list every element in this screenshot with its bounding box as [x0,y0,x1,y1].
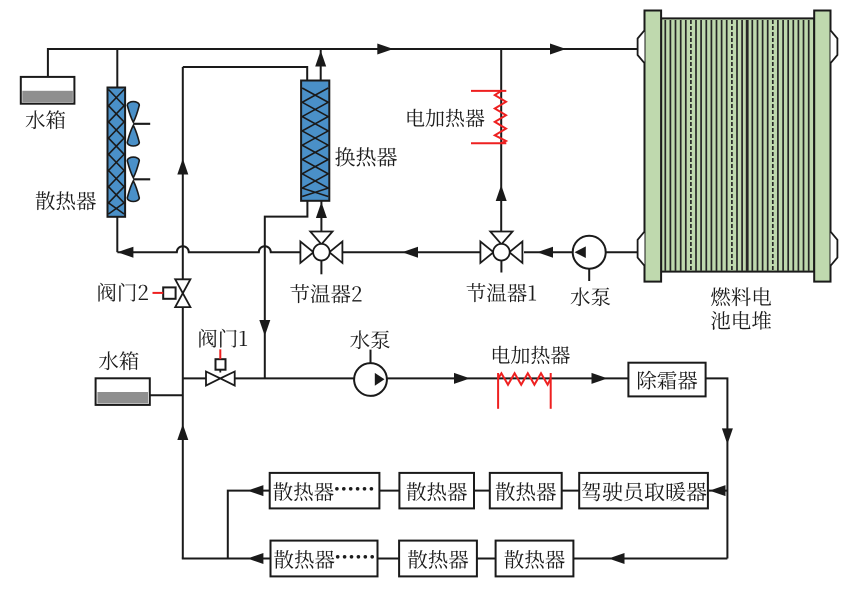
label water tank 1 [26,110,66,129]
arrow down on x=264.8 branch [259,320,270,336]
electric heater 2 (horizontal, red) [497,373,499,409]
arrow up exchanger outlet [315,51,326,67]
valve 2 (vertical bowtie) [175,279,190,293]
electric heater 1 (vertical, red) [471,90,506,92]
wire pump2 stem [370,350,372,364]
stack port tab bottom-left [638,232,645,266]
arrow left pump1 to thermostat1 [537,247,553,258]
wire vertical branch x=182.8 lower (valve2 to bottom row corner) [182,307,184,559]
valve 1 (horizontal bowtie) [206,372,220,386]
label box E text [274,550,334,569]
arrow left bottom-right row [609,553,625,564]
label box F text [408,550,468,569]
wire top-left horizontal into exchanger top [183,67,307,81]
arrow right bottom main line after pump2 [454,373,470,384]
wire pump1 to stack bottom tab [606,251,638,253]
label water pump 1 [571,287,611,306]
water tank 1 (top left) [21,77,75,104]
wire tank1 stub down [47,48,49,77]
label box G text [505,550,565,569]
arrow left into driver heater box [710,485,726,496]
label thermostat 2 [290,284,361,303]
box radiator A 散热器…… [270,473,380,509]
label fuel cell line 2 [711,311,771,330]
radiator zigzag coil [109,90,125,215]
arrow left mid line between thermostats [402,247,418,258]
wire branch right vertical to heater-box row (driver heater) [709,490,727,492]
heat exchanger zigzag coil [302,88,328,197]
label valve 2 [98,283,147,302]
wire mid line thermostat2 to thermostat1 [343,251,481,253]
stack port tab top-left [638,30,645,63]
wire mid line left segment with two hops [117,246,300,252]
wire radiator bottom stub to mid line corner [116,217,118,252]
ellipsis dots box E [336,555,340,559]
fuel cell stack right end plate [814,11,830,282]
wire bottom-right row line [573,558,727,560]
box radiator C 散热器 [490,473,562,509]
wire mid line thermostat1 to pump1 [524,251,573,253]
wire middle row links [379,490,399,492]
box radiator G 散热器 [496,541,574,577]
arrow left middle row exit [247,485,263,496]
wire radiator top stub [116,49,118,88]
label thermostat 1 [467,283,536,302]
arrow right bottom main line into defroster [592,373,608,384]
box defroster 除霜器 [628,363,705,397]
wire middle row left exit and corner down [228,491,270,559]
valve 1 actuator square and stem [219,370,221,373]
water tank 2 (lower left) [96,378,150,405]
wire exchanger bottom-left path down to bottom main line [265,200,308,378]
fuel cell stack cell stripes [664,20,666,271]
thermostat 2 three-way valve [300,242,313,263]
radiator fan2 shaft line [134,178,151,180]
water pump 2 (lower) [354,363,387,396]
radiator fan1 shaft line [134,123,151,125]
box radiator E 散热器…… [271,541,378,577]
arrow left bottom row exit [247,553,263,564]
label box A text [273,482,333,501]
wire exchanger outlet up to top line [320,50,322,81]
arrow up thermostat2 to exchanger [316,202,327,218]
wire defroster box to right corner and down [706,378,728,558]
arrow left at radiator return corner [117,247,133,258]
label fuel cell line 1 [711,287,771,306]
label water pump 2 [350,330,390,349]
label valve 1 [199,329,247,348]
label box D text [582,482,707,502]
stack port tab top-right [831,30,838,63]
radiator fan blade pair 1 [127,102,139,123]
arrow up on branch x=182.8 [177,159,188,175]
wire tank2 stub [150,394,183,396]
ellipsis dots box A [335,487,339,491]
label electric heater 1 [408,109,485,128]
stack port tab bottom-right [831,232,838,266]
wire bottom main line valve1 to defroster box [234,377,628,379]
box driver heater 驾驶员取暖器 [579,473,708,509]
arrow right on top line (after heater1) [550,44,566,55]
label defroster text [638,371,697,390]
label heat exchanger [335,147,397,167]
arrow up on heater1 line [496,185,507,201]
arrow down right-side vertical [722,428,733,444]
valve 1 red leader line [219,349,221,359]
wire vertical branch x=182.8 upper (corner at y=67 down to valve2) [182,67,184,279]
arrow right on top line (after exchanger) [377,44,393,55]
valve 2 red leader line [153,292,164,294]
label water tank 2 [99,351,138,370]
box radiator B 散热器 [399,473,474,509]
water pump 1 (upper) [573,236,606,269]
label radiator [36,191,96,210]
wire top main line [48,48,638,50]
fuel cell stack middle cells [661,18,814,271]
wire bottom row left exit to riser [182,558,271,560]
wire bottom row links [378,558,400,560]
valve 2 actuator square [163,287,175,298]
wire heater1 vertical line [500,49,502,232]
thermostat 1 three-way valve [480,242,493,263]
arrow up riser x=182.8 lower [177,424,188,440]
wire pump1 stem [588,269,590,281]
wire bottom main line left of valve1 [183,377,207,379]
wire thermostat2 to exchanger bottom [320,200,322,232]
label box B text [407,482,467,501]
wire thermostat2 stem [320,261,322,275]
label electric heater 2 [493,346,570,365]
radiator fan blade pair 2 [127,157,139,178]
radiator (top) blue body [108,88,126,217]
fuel cell stack left end plate [645,11,662,282]
label box C text [496,482,556,501]
wire thermostat1 stem [500,261,502,273]
heat exchanger blue body [301,81,329,201]
box radiator F 散热器 [399,541,477,577]
